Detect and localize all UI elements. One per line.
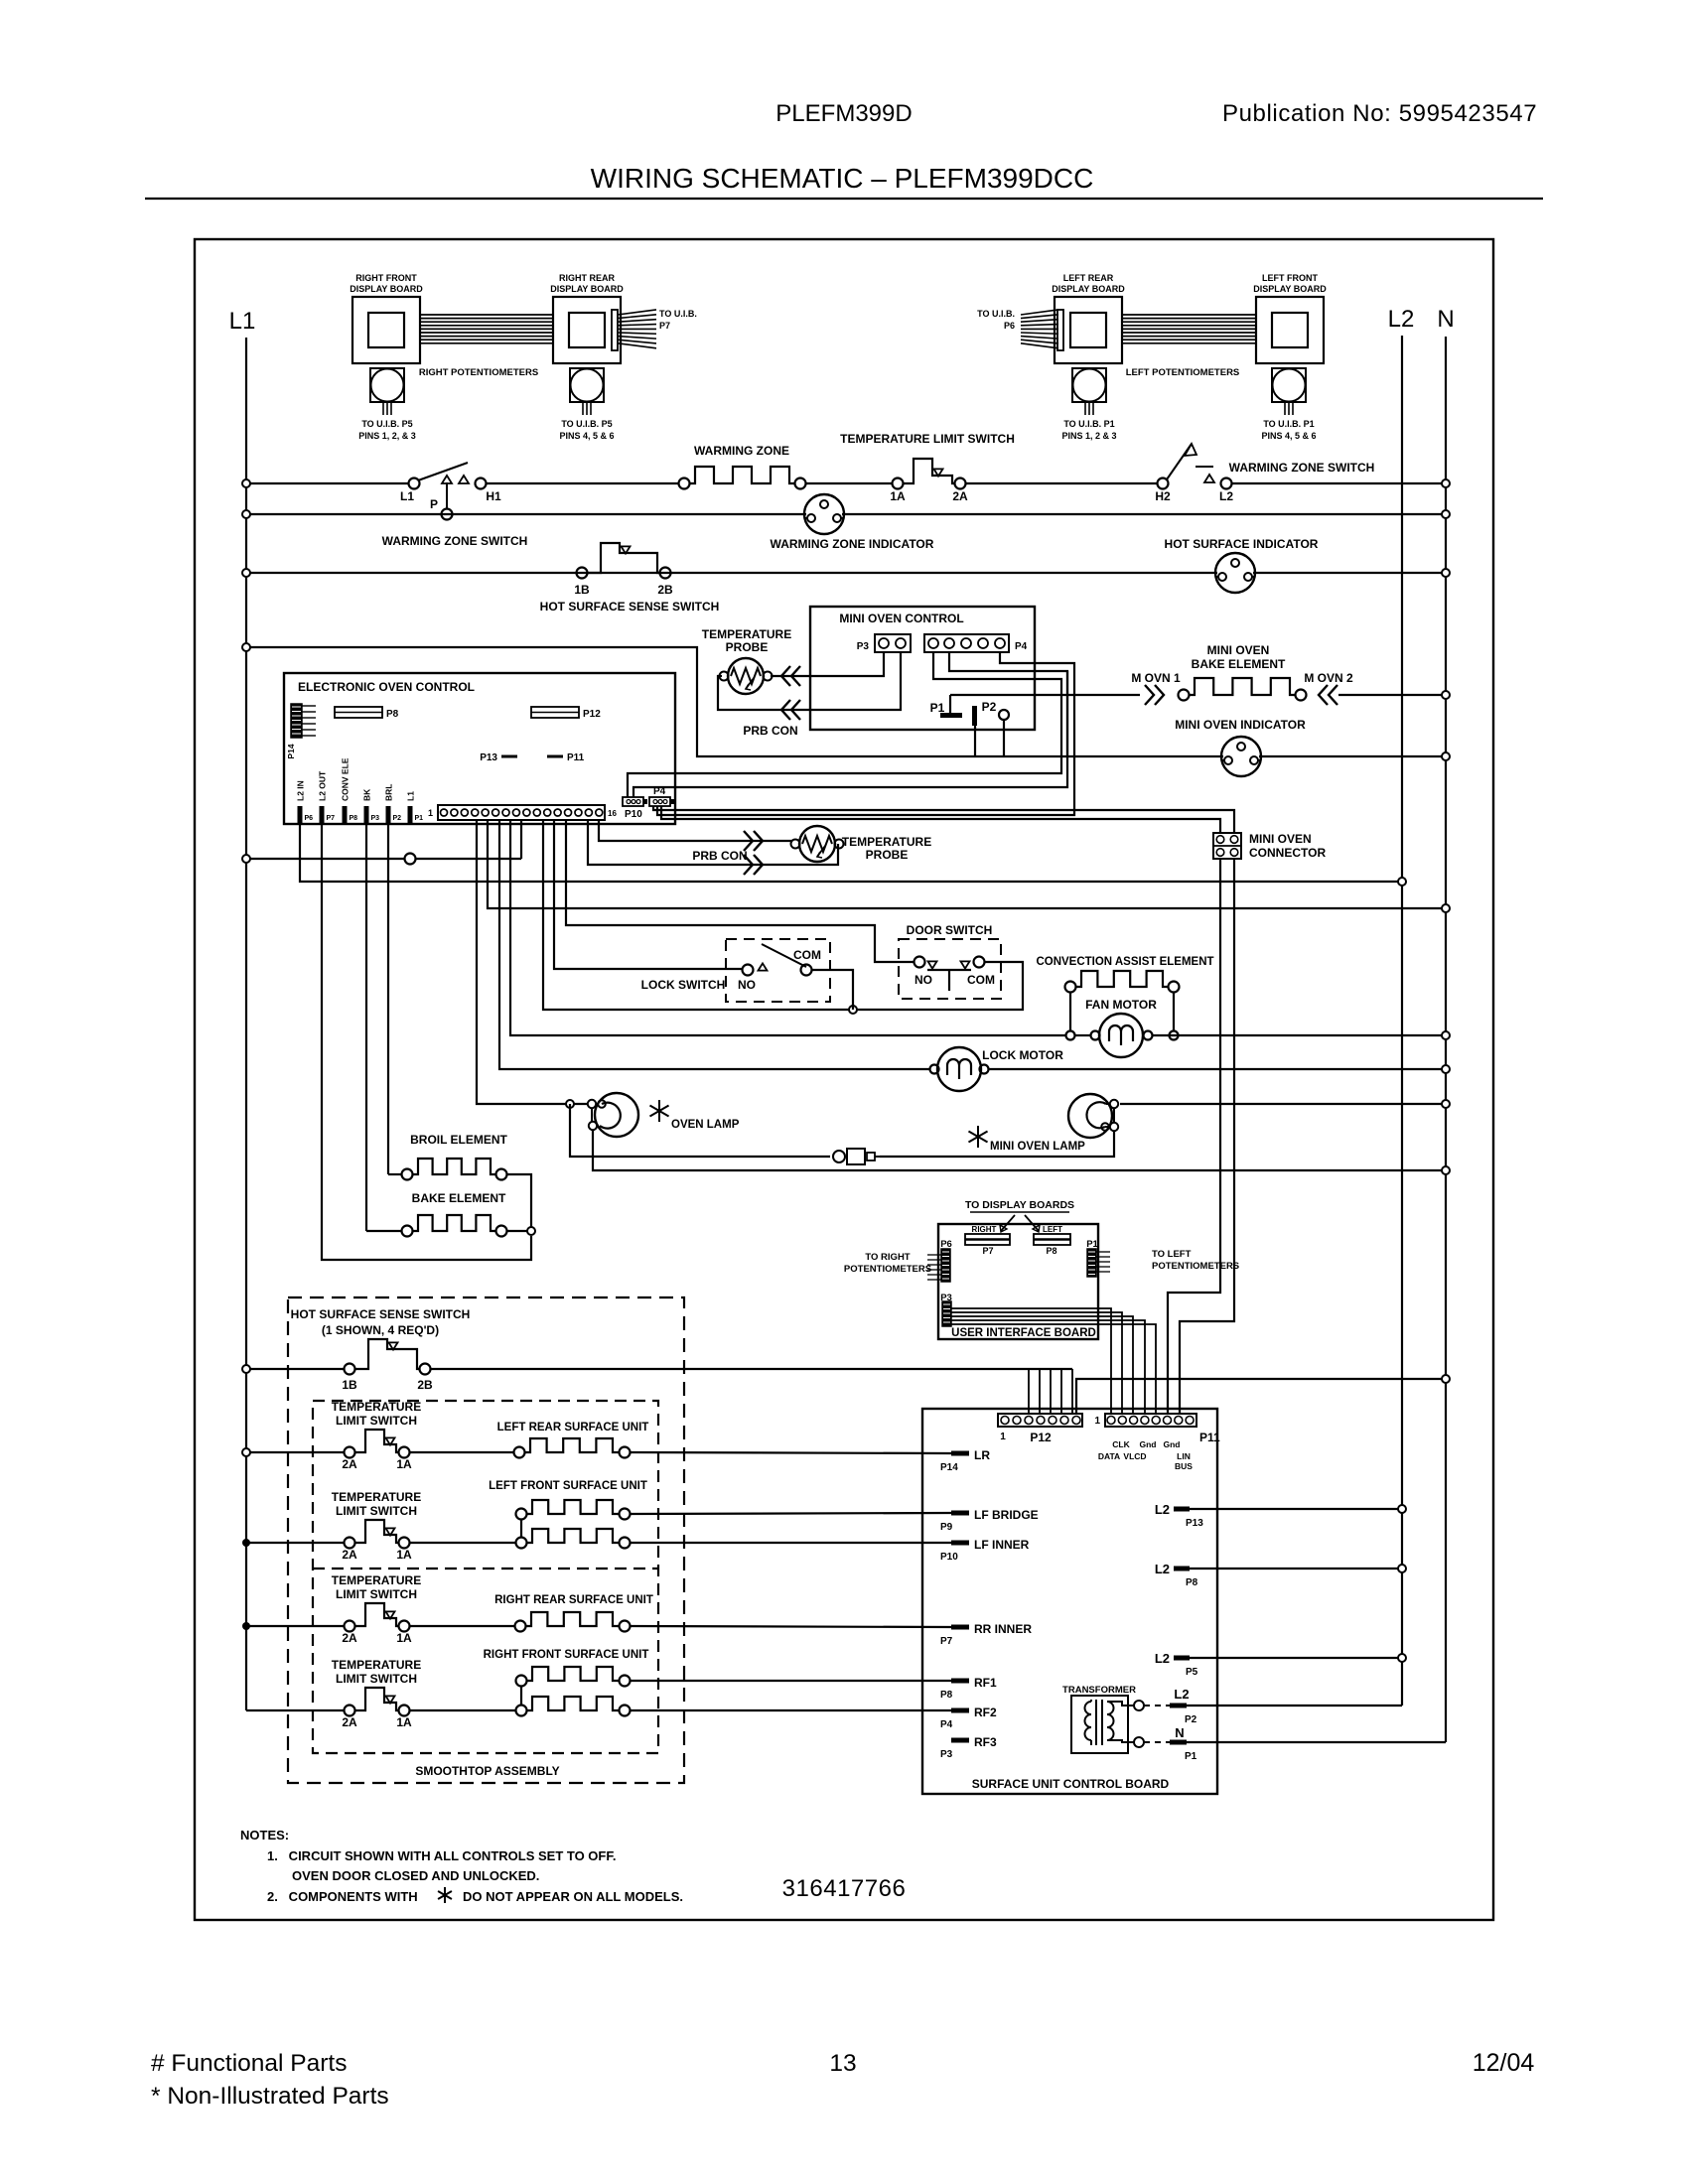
svg-text:P12: P12: [1030, 1431, 1052, 1444]
junction N y915: [1442, 904, 1450, 912]
svg-text:COM: COM: [967, 973, 995, 987]
svg-text:MINI OVEN INDICATOR: MINI OVEN INDICATOR: [1175, 718, 1306, 732]
connector P14: [286, 704, 316, 759]
title underline: [145, 198, 1543, 200]
junction L2 row P5: [1398, 1654, 1406, 1662]
connector P2 mini: [972, 700, 997, 756]
svg-text:CONV ELE: CONV ELE: [341, 757, 351, 801]
svg-text:P1: P1: [415, 815, 424, 822]
label P13: [480, 752, 517, 763]
switch temperature limit switch RR: [332, 1573, 421, 1645]
svg-text:LEFT FRONT: LEFT FRONT: [1262, 273, 1318, 283]
svg-text:TO U.I.B. P1: TO U.I.B. P1: [1063, 419, 1114, 429]
label L1 contact: [400, 489, 414, 503]
svg-text:NO: NO: [738, 978, 756, 992]
svg-text:H1: H1: [486, 489, 501, 503]
label fan motor: [1085, 998, 1157, 1012]
svg-text:P10: P10: [625, 809, 642, 820]
svg-text:WARMING ZONE: WARMING ZONE: [694, 444, 789, 458]
label PRB CON mini oven: [743, 724, 797, 738]
resistor broil element: [402, 1159, 507, 1180]
svg-text:L2: L2: [1155, 1651, 1170, 1666]
thermistor temperature probe mini oven: [720, 658, 773, 694]
svg-text:RIGHT FRONT SURFACE UNIT: RIGHT FRONT SURFACE UNIT: [484, 1649, 649, 1661]
svg-text:BUS: BUS: [1175, 1461, 1193, 1471]
wire bake right to junction: [506, 1230, 531, 1232]
svg-text:RIGHT REAR SURFACE UNIT: RIGHT REAR SURFACE UNIT: [494, 1594, 653, 1606]
right rear potentiometer: [570, 368, 604, 415]
label right rear surface unit: [494, 1594, 653, 1606]
label mini oven control: [839, 612, 963, 625]
junction N mini oven indicator: [1442, 752, 1450, 760]
svg-text:NOTES:: NOTES:: [240, 1828, 289, 1843]
svg-text:L1: L1: [406, 791, 416, 801]
svg-text:LIMIT SWITCH: LIMIT SWITCH: [336, 1414, 417, 1428]
label L2 contact: [1219, 489, 1233, 503]
resistor left front bridge element: [516, 1500, 631, 1520]
header publication number text: [1222, 100, 1537, 127]
svg-text:P9: P9: [940, 1522, 953, 1533]
wire N rail: [1445, 337, 1447, 1742]
label to left potentiometers: [1152, 1249, 1239, 1272]
svg-text:TRANSFORMER: TRANSFORMER: [1062, 1685, 1136, 1696]
connector P12 EOC: [531, 707, 601, 720]
svg-text:TO U.I.B. P5: TO U.I.B. P5: [361, 419, 412, 429]
label warming zone: [694, 444, 789, 458]
wire ribbon left boards: [1123, 315, 1256, 343]
label temperature limit switch rung1: [840, 432, 1015, 446]
label to UIB P7: [659, 309, 697, 331]
svg-text:LEFT REAR SURFACE UNIT: LEFT REAR SURFACE UNIT: [497, 1422, 649, 1433]
svg-text:LIMIT SWITCH: LIMIT SWITCH: [336, 1504, 417, 1518]
label 1A contact: [890, 489, 906, 503]
svg-text:TEMPERATURE: TEMPERATURE: [332, 1658, 421, 1672]
svg-text:(1 SHOWN, 4 REQ'D): (1 SHOWN, 4 REQ'D): [322, 1323, 439, 1337]
svg-text:1A: 1A: [396, 1715, 412, 1729]
connector SUCB P3 RF3: [940, 1735, 997, 1760]
wire strip pin6 drop to lock motor: [499, 820, 929, 1069]
junction L1 rung LR: [242, 1448, 250, 1456]
svg-text:COM: COM: [793, 948, 821, 962]
label mini oven lamp: [968, 1126, 1085, 1153]
svg-text:OVEN DOOR CLOSED AND UNLOCKED.: OVEN DOOR CLOSED AND UNLOCKED.: [292, 1868, 539, 1883]
resistor mini oven bake element: [1179, 678, 1307, 701]
connector SUCB P14 LR: [940, 1448, 990, 1473]
label to UIB P6: [977, 309, 1015, 331]
label temperature probe EOC: [842, 835, 931, 862]
wire convection element left drop: [1069, 992, 1071, 1030]
label warming zone indicator: [771, 537, 934, 551]
wire EOC P4 to mini P4 pin5: [657, 652, 1074, 815]
svg-text:NO: NO: [914, 973, 932, 987]
node L1 label: [229, 308, 256, 335]
box lock switch: [726, 939, 830, 1002]
wire oven lamp tee drop: [570, 1104, 830, 1157]
wire lock motor rung right: [989, 1068, 1446, 1070]
svg-text:FAN MOTOR: FAN MOTOR: [1085, 998, 1157, 1012]
svg-text:L2: L2: [1155, 1502, 1170, 1517]
resistor left rear surface unit: [514, 1438, 631, 1458]
svg-text:P6: P6: [1004, 321, 1015, 331]
svg-text:1A: 1A: [396, 1548, 412, 1562]
left rear potentiometer: [1072, 368, 1106, 415]
svg-text:DISPLAY BOARD: DISPLAY BOARD: [1052, 284, 1125, 294]
svg-text:RIGHT: RIGHT: [972, 1225, 997, 1234]
svg-text:HOT SURFACE INDICATOR: HOT SURFACE INDICATOR: [1165, 537, 1319, 551]
svg-text:ELECTRONIC OVEN CONTROL: ELECTRONIC OVEN CONTROL: [298, 680, 475, 694]
label left front surface unit: [489, 1480, 647, 1492]
svg-text:VLCD: VLCD: [1123, 1451, 1146, 1461]
connector SUCB P12: [998, 1414, 1082, 1444]
svg-text:P2: P2: [982, 700, 997, 714]
indicator mini oven indicator: [1221, 737, 1261, 776]
svg-text:L2 IN: L2 IN: [296, 780, 306, 801]
svg-text:PRB CON: PRB CON: [743, 724, 797, 738]
svg-text:BAKE ELEMENT: BAKE ELEMENT: [1192, 657, 1286, 671]
left front display board: [1253, 273, 1327, 363]
label note 2: [267, 1887, 683, 1904]
svg-text:# Functional Parts: # Functional Parts: [151, 2050, 347, 2077]
svg-text:MINI OVEN CONTROL: MINI OVEN CONTROL: [839, 612, 963, 625]
node L2 label: [1388, 306, 1415, 333]
node N label: [1437, 306, 1454, 333]
svg-text:P8: P8: [350, 815, 358, 822]
junction bake broil common: [527, 1227, 535, 1235]
contact P2 aux circle: [999, 710, 1009, 756]
svg-text:LIMIT SWITCH: LIMIT SWITCH: [336, 1672, 417, 1686]
contact fan rung left node: [1066, 1031, 1075, 1040]
svg-text:P7: P7: [327, 815, 336, 822]
svg-text:PINS 1, 2, & 3: PINS 1, 2, & 3: [358, 431, 416, 441]
svg-text:MINI OVEN LAMP: MINI OVEN LAMP: [990, 1141, 1085, 1153]
svg-text:2B: 2B: [657, 583, 673, 597]
connector EOC bottom pins L2IN L2OUT CONVELE BK BRL L1: [296, 757, 424, 824]
label 2B contact rung3: [657, 583, 673, 597]
svg-text:TEMPERATURE LIMIT SWITCH: TEMPERATURE LIMIT SWITCH: [840, 432, 1015, 446]
wire rung1 segment 3: [965, 482, 1157, 484]
switch temperature limit switch rung1: [893, 459, 966, 489]
motor lock motor: [930, 1047, 989, 1091]
wire broil right to junction: [506, 1174, 531, 1231]
contact P circle: [442, 509, 453, 520]
svg-text:2A: 2A: [952, 489, 968, 503]
svg-text:OVEN LAMP: OVEN LAMP: [671, 1119, 740, 1131]
label mini oven connector: [1249, 832, 1326, 860]
svg-text:PINS 4, 5 & 6: PINS 4, 5 & 6: [559, 431, 614, 441]
left rear display board: [1052, 273, 1125, 363]
junction N bake rung: [1442, 691, 1450, 699]
connector SUCB P9 LF BRIDGE: [940, 1508, 1039, 1533]
label lock switch COM: [793, 948, 821, 962]
label transformer: [1062, 1685, 1136, 1696]
svg-text:TO LEFT: TO LEFT: [1152, 1249, 1192, 1260]
junction N P12 feed: [1442, 1375, 1450, 1383]
wire transformer to P2 L2: [1144, 1687, 1402, 1725]
svg-text:LOCK MOTOR: LOCK MOTOR: [982, 1048, 1063, 1062]
junction N rung3: [1442, 569, 1450, 577]
chevrons probe lower: [781, 700, 800, 720]
svg-text:1B: 1B: [574, 583, 590, 597]
junction L2 rail y888: [1398, 878, 1406, 886]
svg-text:LEFT REAR: LEFT REAR: [1063, 273, 1114, 283]
label user interface board: [951, 1327, 1096, 1339]
svg-text:P3: P3: [371, 815, 380, 822]
label temperature probe mini oven: [702, 627, 791, 654]
svg-text:LIMIT SWITCH: LIMIT SWITCH: [336, 1587, 417, 1601]
junction L1 rung5: [242, 855, 250, 863]
svg-text:TEMPERATURE: TEMPERATURE: [332, 1400, 421, 1414]
svg-text:N: N: [1437, 306, 1454, 333]
label lock motor: [982, 1048, 1063, 1062]
svg-text:P8: P8: [1046, 1246, 1056, 1256]
label electronic oven control: [298, 680, 475, 694]
wire BK drop: [366, 824, 401, 1231]
junction L2 row P8: [1398, 1565, 1406, 1572]
resistor left front inner element: [516, 1529, 631, 1549]
box surface unit control board: [922, 1409, 1217, 1794]
junction L1 rung LF: [242, 1539, 250, 1547]
svg-text:L2: L2: [1219, 489, 1233, 503]
box user interface board: [938, 1224, 1098, 1339]
svg-text:PROBE: PROBE: [866, 848, 909, 862]
junction oven lamp tee: [566, 1100, 574, 1108]
resistor right rear surface unit: [515, 1612, 631, 1632]
svg-text:P14: P14: [940, 1462, 958, 1473]
svg-text:P1: P1: [1185, 1751, 1197, 1762]
svg-text:TO RIGHT: TO RIGHT: [865, 1252, 910, 1263]
wire strip pin10 drop lock COM line: [543, 820, 1023, 1010]
svg-text:L1: L1: [229, 308, 256, 335]
wire L1 pin rung: [246, 854, 521, 865]
wire L2 rail: [1401, 336, 1403, 1706]
label broil element: [410, 1133, 507, 1147]
transformer T1: [1071, 1696, 1144, 1753]
label P11 pin names: [1098, 1439, 1193, 1471]
wire RF2 to SUCB: [631, 1709, 951, 1711]
svg-text:P11: P11: [567, 752, 585, 763]
svg-text:MINI OVEN: MINI OVEN: [1207, 643, 1270, 657]
svg-text:LF BRIDGE: LF BRIDGE: [974, 1508, 1039, 1522]
wire mini P3 pin2 to probe lower: [718, 652, 901, 710]
wire rung LR right: [631, 1452, 951, 1453]
connector mini oven connector: [1213, 833, 1241, 859]
svg-text:DATA: DATA: [1098, 1451, 1120, 1461]
switch warming zone switch right (H2-L2): [1158, 444, 1232, 489]
svg-text:P13: P13: [480, 752, 497, 763]
chevrons M OVN 1: [1145, 685, 1164, 705]
svg-text:HOT SURFACE SENSE SWITCH: HOT SURFACE SENSE SWITCH: [291, 1307, 471, 1321]
label surface unit control board: [972, 1777, 1170, 1791]
svg-text:DISPLAY BOARD: DISPLAY BOARD: [550, 284, 624, 294]
connector SUCB P13 L2 row: [1155, 1502, 1402, 1529]
svg-text:BK: BK: [362, 788, 372, 801]
wire mini oven connector pin3 to UIB P11: [1168, 859, 1220, 1414]
label notes heading: [240, 1828, 289, 1843]
svg-text:TEMPERATURE: TEMPERATURE: [842, 835, 931, 849]
svg-text:BROIL ELEMENT: BROIL ELEMENT: [410, 1133, 507, 1147]
connector UIB P6: [927, 1239, 952, 1282]
svg-text:M OVN 1: M OVN 1: [1131, 671, 1181, 685]
wire lock COM out: [811, 970, 853, 1010]
svg-text:M OVN 2: M OVN 2: [1304, 671, 1353, 685]
label P11 EOC: [547, 752, 585, 763]
label bake element: [412, 1191, 506, 1205]
label 2B smoothtop: [417, 1378, 433, 1392]
label PRB CON EOC: [692, 849, 747, 863]
junction L1 rung3: [242, 569, 250, 577]
svg-text:P5: P5: [1186, 1667, 1198, 1678]
wire strip pin15 drop PRB CON lower: [588, 820, 838, 865]
wire strip pin8 drop: [520, 820, 522, 859]
svg-text:Gnd: Gnd: [1164, 1439, 1181, 1449]
wire rung RR mid: [410, 1625, 514, 1627]
svg-text:P8: P8: [386, 709, 399, 720]
wire L2 OUT return loop: [322, 824, 531, 1260]
resistor right front inner element: [516, 1697, 631, 1716]
header model number text: [775, 100, 912, 127]
wire rung LR left: [246, 1451, 344, 1453]
wire RR INNER to SUCB: [631, 1626, 951, 1627]
label 2A contact: [952, 489, 968, 503]
wire mini oven bake rung right: [1338, 694, 1446, 696]
svg-text:PINS 1, 2 & 3: PINS 1, 2 & 3: [1061, 431, 1116, 441]
junction L1 rung hss: [242, 1365, 250, 1373]
svg-text:RF2: RF2: [974, 1706, 997, 1719]
connector P10 EOC: [623, 797, 647, 820]
wire rung LF left: [246, 1542, 344, 1544]
junction L1 rung RR: [242, 1622, 250, 1630]
connector SUCB P11: [1094, 1414, 1220, 1444]
svg-text:P10: P10: [940, 1552, 958, 1563]
junction lock COM tee: [849, 1006, 857, 1014]
label lock switch NO: [738, 978, 756, 992]
connector P8 EOC: [335, 707, 399, 720]
wire mini P3 pin1 to probe: [771, 652, 884, 676]
label warming zone switch left: [382, 534, 528, 548]
label note 1b: [292, 1868, 539, 1883]
svg-text:P11: P11: [1199, 1431, 1220, 1444]
svg-text:BAKE ELEMENT: BAKE ELEMENT: [412, 1191, 506, 1205]
junction N oven lamp return: [1442, 1166, 1450, 1174]
wire bundle to SUCB P12: [1029, 1369, 1072, 1414]
svg-text:WARMING ZONE INDICATOR: WARMING ZONE INDICATOR: [771, 537, 934, 551]
svg-text:SMOOTHTOP ASSEMBLY: SMOOTHTOP ASSEMBLY: [415, 1764, 559, 1778]
svg-text:1A: 1A: [396, 1631, 412, 1645]
wire oven lamp bottom to N: [593, 1130, 1446, 1170]
svg-text:RIGHT FRONT: RIGHT FRONT: [355, 273, 417, 283]
junction N fan rung: [1442, 1031, 1450, 1039]
svg-text:L2: L2: [1174, 1687, 1189, 1702]
label door switch COM: [967, 973, 995, 987]
wire rung3: [246, 572, 1446, 574]
connector UIB P3: [940, 1293, 952, 1326]
wire LF BRIDGE to SUCB: [631, 1513, 951, 1514]
label M OVN 1: [1131, 671, 1181, 685]
label note 1: [267, 1848, 616, 1863]
svg-text:PLEFM399D: PLEFM399D: [775, 100, 912, 127]
svg-text:LIN: LIN: [1177, 1451, 1191, 1461]
label M OVN 2: [1304, 671, 1353, 685]
connector UIB P8 left bar: [1034, 1225, 1070, 1256]
chevrons M OVN 2: [1319, 685, 1337, 705]
label convection assist element: [1036, 956, 1213, 968]
svg-text:MINI OVEN: MINI OVEN: [1249, 832, 1312, 846]
svg-text:12/04: 12/04: [1473, 2049, 1535, 2077]
svg-text:L2 OUT: L2 OUT: [318, 770, 328, 801]
svg-text:RR INNER: RR INNER: [974, 1622, 1032, 1636]
box surface units inner: [313, 1401, 658, 1753]
svg-text:1A: 1A: [396, 1457, 412, 1471]
label left potentiometers: [1126, 367, 1240, 378]
wire mini oven bake rung left: [950, 694, 1140, 696]
footer non-illustrated parts text: [151, 2083, 389, 2110]
right front display board: [350, 273, 423, 363]
switch hot surface sense switch smoothtop: [345, 1339, 431, 1375]
svg-text:PROBE: PROBE: [726, 640, 769, 654]
thermistor temperature probe EOC: [791, 826, 844, 862]
svg-text:1: 1: [1094, 1416, 1100, 1427]
wire BRL drop: [388, 824, 401, 1174]
connector P4 EOC: [649, 786, 674, 806]
svg-text:P3: P3: [857, 641, 870, 652]
label mini oven bake element: [1192, 643, 1286, 671]
svg-text:P7: P7: [940, 1636, 953, 1647]
chevrons probe upper: [781, 666, 800, 686]
svg-text:TO DISPLAY BOARDS: TO DISPLAY BOARDS: [965, 1199, 1074, 1211]
svg-text:P8: P8: [1186, 1577, 1198, 1588]
svg-text:P7: P7: [982, 1246, 993, 1256]
svg-text:LEFT: LEFT: [1043, 1225, 1062, 1234]
label 1B contact rung3: [574, 583, 590, 597]
svg-text:Publication No: 5995423547: Publication No: 5995423547: [1222, 100, 1537, 127]
wire strip pin16 drop PRB CON upper: [599, 820, 792, 841]
wire UIB P3 bus to SUCB P11: [951, 1308, 1156, 1414]
connector mini oven lamp plug: [833, 1149, 880, 1164]
wire rung1 segment 2: [805, 482, 892, 484]
label hot surface sense switch group: [291, 1307, 471, 1337]
svg-text:2A: 2A: [342, 1715, 357, 1729]
svg-text:P8: P8: [940, 1690, 953, 1701]
lamp mini oven lamp: [1068, 1094, 1118, 1138]
contact fan rung right node: [1170, 1031, 1179, 1040]
svg-text:1: 1: [1000, 1432, 1006, 1442]
svg-text:DO NOT APPEAR ON ALL MODELS.: DO NOT APPEAR ON ALL MODELS.: [463, 1889, 683, 1904]
svg-text:P7: P7: [659, 321, 670, 331]
connector P4 mini: [924, 634, 1028, 652]
wire rung RR left: [246, 1625, 344, 1627]
svg-text:P: P: [430, 497, 438, 511]
connector P1 mini: [930, 695, 962, 718]
wire N to SUCB P12 pin7: [1076, 1379, 1446, 1414]
wire rung mini oven indicator right: [1259, 755, 1446, 757]
svg-text:13: 13: [829, 2050, 856, 2077]
svg-text:RIGHT REAR: RIGHT REAR: [559, 273, 616, 283]
svg-text:SURFACE UNIT CONTROL BOARD: SURFACE UNIT CONTROL BOARD: [972, 1777, 1170, 1791]
wire transformer to P1 N: [1144, 1725, 1446, 1762]
connector UIB P7 right bar: [965, 1225, 1010, 1256]
svg-text:PRB CON: PRB CON: [692, 849, 747, 863]
svg-text:RIGHT POTENTIOMETERS: RIGHT POTENTIOMETERS: [419, 367, 538, 378]
svg-text:RF3: RF3: [974, 1735, 997, 1749]
svg-text:RF1: RF1: [974, 1676, 997, 1690]
junction N rung2: [1442, 510, 1450, 518]
wire arrow to right bar: [1000, 1215, 1015, 1232]
resistor warming zone element: [679, 467, 806, 489]
chevrons PRB CON upper: [744, 831, 763, 851]
wire mini oven lamp to N: [1120, 1103, 1446, 1105]
wire rung4 to mini oven: [246, 647, 1223, 756]
switch temperature limit switch LF: [332, 1490, 421, 1562]
